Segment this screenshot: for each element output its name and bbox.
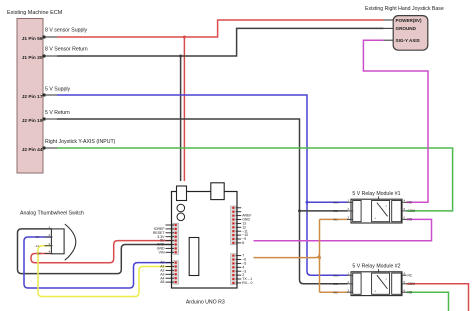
svg-text:5V: 5V (38, 252, 42, 256)
svg-text:5 V Return: 5 V Return (45, 110, 70, 116)
svg-text:DC+: DC+ (334, 201, 340, 205)
svg-text:A1: A1 (36, 244, 40, 248)
svg-text:Arduino UNO R3: Arduino UNO R3 (186, 300, 225, 306)
svg-text:J2 Pin 17: J2 Pin 17 (22, 94, 43, 100)
svg-text:NO: NO (408, 291, 413, 295)
svg-text:J2 Pin 44: J2 Pin 44 (22, 147, 43, 153)
svg-text:J1 Pin 30: J1 Pin 30 (22, 55, 43, 61)
svg-text:GROUND: GROUND (396, 26, 417, 31)
svg-text:J1 Pin 56: J1 Pin 56 (22, 36, 43, 42)
svg-text:Right Joystick Y-AXIS (INPUT): Right Joystick Y-AXIS (INPUT) (45, 139, 116, 145)
svg-text:VIN: VIN (159, 250, 165, 254)
svg-text:COM: COM (408, 209, 416, 213)
svg-text:SIG-Y AXIS: SIG-Y AXIS (396, 38, 420, 43)
svg-text:NO: NO (408, 218, 413, 222)
svg-text:DC+: DC+ (334, 273, 340, 277)
svg-text:5 V Relay Module #1: 5 V Relay Module #1 (352, 191, 400, 197)
svg-text:DC-: DC- (334, 209, 339, 213)
svg-text:IN2: IN2 (334, 290, 339, 294)
svg-text:Existing Machine ECM: Existing Machine ECM (7, 10, 63, 16)
svg-text:8: 8 (242, 241, 244, 245)
svg-text:Existing Right Hand Joystick B: Existing Right Hand Joystick Base (365, 6, 444, 12)
svg-text:8 V Sensor Return: 8 V Sensor Return (45, 47, 88, 53)
svg-text:8 V sensor Supply: 8 V sensor Supply (45, 28, 88, 34)
svg-text:5 V Relay Module #2: 5 V Relay Module #2 (352, 264, 400, 270)
svg-text:NC: NC (408, 201, 413, 205)
svg-text:IN1: IN1 (334, 218, 339, 222)
svg-text:A0: A0 (36, 235, 40, 239)
svg-text:RX←0: RX←0 (242, 281, 252, 285)
svg-text:A5: A5 (160, 280, 164, 284)
svg-text:COM: COM (408, 282, 416, 286)
svg-text:5 V Supply: 5 V Supply (45, 87, 70, 93)
svg-text:POWER(8V): POWER(8V) (396, 18, 423, 23)
svg-text:Analog Thumbwheel Switch: Analog Thumbwheel Switch (20, 211, 84, 217)
svg-text:DC-: DC- (334, 282, 339, 286)
svg-text:NC: NC (408, 274, 413, 278)
svg-text:J2 Pin 19: J2 Pin 19 (22, 118, 43, 124)
